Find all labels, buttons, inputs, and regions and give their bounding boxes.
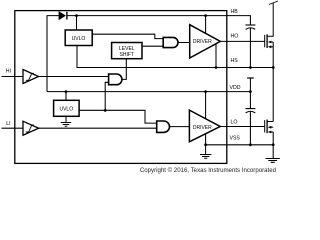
- node HS to driver1 ground: [215, 66, 218, 69]
- gate AND2 (middle, to level shift): [109, 74, 122, 85]
- block LEVEL SHIFT: [112, 43, 142, 59]
- buffer LI input (Schmitt): [23, 121, 39, 135]
- block UVLO2 (VDD UVLO): [54, 100, 80, 116]
- capacitor C2 VDD bypass: [245, 109, 255, 113]
- svg-text:HS: HS: [231, 58, 239, 64]
- node HB junction at diode: [75, 14, 78, 17]
- node bootstrap cap at HS: [249, 66, 252, 69]
- wire UVLO2 output: [79, 110, 157, 123]
- svg-text:LI: LI: [6, 121, 10, 127]
- wire VSS external: [227, 144, 273, 146]
- wire UVLO1 top stub: [76, 16, 78, 30]
- wire bypass cap leads: [249, 92, 251, 145]
- wire bootstrap cap to HS node: [249, 28, 251, 68]
- node bypass cap at VSS: [249, 143, 252, 146]
- wire LI pin lead: [2, 127, 24, 129]
- driver U2 (low side): [189, 110, 220, 142]
- wire HI buffer output to AND2: [39, 76, 109, 78]
- IC boundary box: [15, 11, 227, 164]
- node VSS at driver2 ground: [204, 143, 207, 146]
- wire HI pin lead: [2, 76, 24, 78]
- gate AND1 (top, to driver1): [163, 37, 178, 47]
- svg-text:VDD: VDD: [230, 85, 241, 91]
- gate AND3 (bottom, to driver2): [157, 121, 170, 132]
- wire VDD terminal stub: [249, 78, 251, 92]
- node phase at HS line: [272, 66, 275, 69]
- wire phase node vertical (Q1 source to Q2 drain): [272, 42, 274, 122]
- wire driver1 ground tap to HS: [215, 44, 217, 68]
- node Q2 source at VSS: [272, 143, 275, 146]
- transistor Q1 (high-side MOSFET): [265, 1, 278, 48]
- wire HB rail: [67, 15, 227, 17]
- wire VDD rail: [47, 91, 227, 93]
- wire HO line: [220, 40, 264, 42]
- wire VDD rail to diode anode (left vertical): [47, 16, 59, 92]
- node VDD to UVLO2: [65, 90, 68, 93]
- svg-text:HI: HI: [6, 69, 11, 75]
- node UVLO2 output branch: [104, 109, 107, 112]
- svg-text:LO: LO: [231, 120, 238, 126]
- svg-text:UVLO: UVLO: [72, 36, 86, 42]
- wire Q2 source to VSS to ground: [272, 132, 274, 159]
- svg-text:UVLO: UVLO: [59, 106, 73, 112]
- wire VDD external: [227, 91, 251, 93]
- wire driver1 supply tap from HB: [205, 16, 207, 34]
- node VDD external junction: [249, 90, 252, 93]
- wire AND3 output to driver2: [170, 126, 190, 128]
- svg-text:VSS: VSS: [230, 136, 241, 142]
- svg-text:HB: HB: [231, 9, 239, 15]
- terminal VDD supply bar: [247, 77, 254, 79]
- node VDD to driver2 supply: [204, 90, 207, 93]
- transistor Q2 (low-side MOSFET): [265, 120, 274, 134]
- svg-text:HO: HO: [231, 34, 239, 40]
- wire HB external to bootstrap cap: [227, 16, 251, 25]
- wire UVLO2 top stub from VDD: [65, 92, 67, 101]
- capacitor C1 bootstrap: [245, 25, 255, 29]
- svg-text:SHIFT: SHIFT: [120, 52, 134, 58]
- wire HS external: [227, 67, 273, 69]
- wire AND2 output to LEVEL SHIFT bottom: [122, 59, 126, 80]
- svg-text:DRIVER: DRIVER: [193, 39, 212, 45]
- ground external at VSS: [266, 159, 280, 163]
- buffer HI input (Schmitt): [23, 70, 39, 84]
- wire driver2 ground tap to VSS: [205, 134, 207, 145]
- ground internal under UVLO2: [61, 116, 71, 126]
- driver U1 (high side): [190, 25, 221, 58]
- wire driver2 supply tap from VDD: [205, 92, 207, 119]
- diode D1 bootstrap: [59, 12, 67, 20]
- wire HS rail from UVLO1 bottom: [77, 46, 227, 68]
- wire LI buffer output to AND3: [39, 127, 157, 129]
- wire AND1 output to driver1: [178, 42, 190, 44]
- wire LO line: [220, 126, 265, 128]
- ground internal under driver U2: [200, 145, 211, 159]
- svg-text:DRIVER: DRIVER: [193, 125, 212, 131]
- wire UVLO1 output to AND1 top input: [92, 34, 163, 38]
- wire LEVEL SHIFT output to AND1 bottom input: [142, 45, 163, 47]
- node HB to driver1 supply: [204, 14, 207, 17]
- wire UVLO2 output branch to AND2 bottom input: [105, 82, 108, 110]
- wire VSS rail: [206, 144, 227, 146]
- block UVLO1 (HB-HS UVLO): [65, 30, 92, 46]
- svg-text:Copyright © 2016, Texas Instru: Copyright © 2016, Texas Instruments Inco…: [140, 167, 276, 174]
